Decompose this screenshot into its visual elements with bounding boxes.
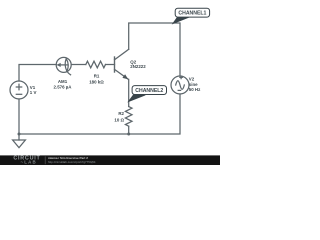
svg-text:http://circuitlab.com/c/pmh7g7: http://circuitlab.com/c/pmh7g775fq54 <box>48 160 96 164</box>
wire R2 to bottom rail <box>128 127 130 135</box>
V1 minus sign <box>16 93 21 95</box>
wire R1 to Q2 base <box>106 64 115 66</box>
V2 plus sign <box>180 76 182 78</box>
svg-text:R1: R1 <box>94 74 100 79</box>
svg-text:1 V: 1 V <box>30 90 37 95</box>
wire V1 top to left corner to AM1 <box>19 65 56 82</box>
svg-text:50 Hz: 50 Hz <box>189 87 201 92</box>
svg-text:AM1: AM1 <box>58 79 68 84</box>
AM1 loop lower arc <box>67 71 71 75</box>
wire V2 bottom down and bottom rail to ground node <box>19 94 180 134</box>
svg-text:2N2222: 2N2222 <box>130 64 146 69</box>
flag CHANNEL2 box <box>132 86 166 95</box>
wire collector up and across top to V2 <box>129 23 180 76</box>
resistor R2 zigzag <box>125 107 132 127</box>
V1 plus sign <box>16 84 21 89</box>
ground stub <box>18 134 20 140</box>
svg-text:~LAB: ~LAB <box>21 160 37 165</box>
voltage source V2 circle <box>171 76 189 94</box>
svg-text:10 Ω: 10 Ω <box>114 117 124 122</box>
AM1 arrowhead <box>56 63 60 67</box>
resistor R1 zigzag <box>86 61 106 68</box>
svg-text:2.576 µA: 2.576 µA <box>54 85 73 90</box>
flag CHANNEL1 tail <box>173 17 190 24</box>
V2 sine wave <box>176 81 185 90</box>
V2 minus sign <box>178 89 180 91</box>
wire V1 bottom to bottom rail <box>18 99 20 134</box>
wire AM1 to R1 <box>71 64 86 66</box>
flag CHANNEL2 tail <box>128 95 145 102</box>
transistor Q2 collector diagonal <box>115 49 129 60</box>
transistor Q2 base bar <box>114 57 116 72</box>
svg-text:CHANNEL1: CHANNEL1 <box>178 11 206 17</box>
junction node at R2 bottom <box>127 133 130 136</box>
Q2 emitter arrowhead <box>122 74 128 79</box>
wire Q2 emitter down to R2 <box>128 79 130 106</box>
voltage source V1 circle <box>10 81 28 99</box>
AM1 arrow shaft <box>60 64 67 66</box>
svg-text:CHANNEL2: CHANNEL2 <box>135 88 163 94</box>
svg-text:180 kΩ: 180 kΩ <box>89 79 104 84</box>
AM1 loop <box>65 59 68 72</box>
flag CHANNEL1 box <box>175 8 209 17</box>
ground triangle <box>13 140 26 148</box>
footer bar <box>0 155 220 165</box>
junction node at ground <box>18 133 21 136</box>
footer divider <box>44 156 47 164</box>
transistor Q2 emitter diagonal <box>115 69 129 79</box>
ammeter AM1 circle <box>56 57 71 72</box>
svg-text:R2: R2 <box>118 111 124 116</box>
svg-text:sine: sine <box>189 82 198 87</box>
